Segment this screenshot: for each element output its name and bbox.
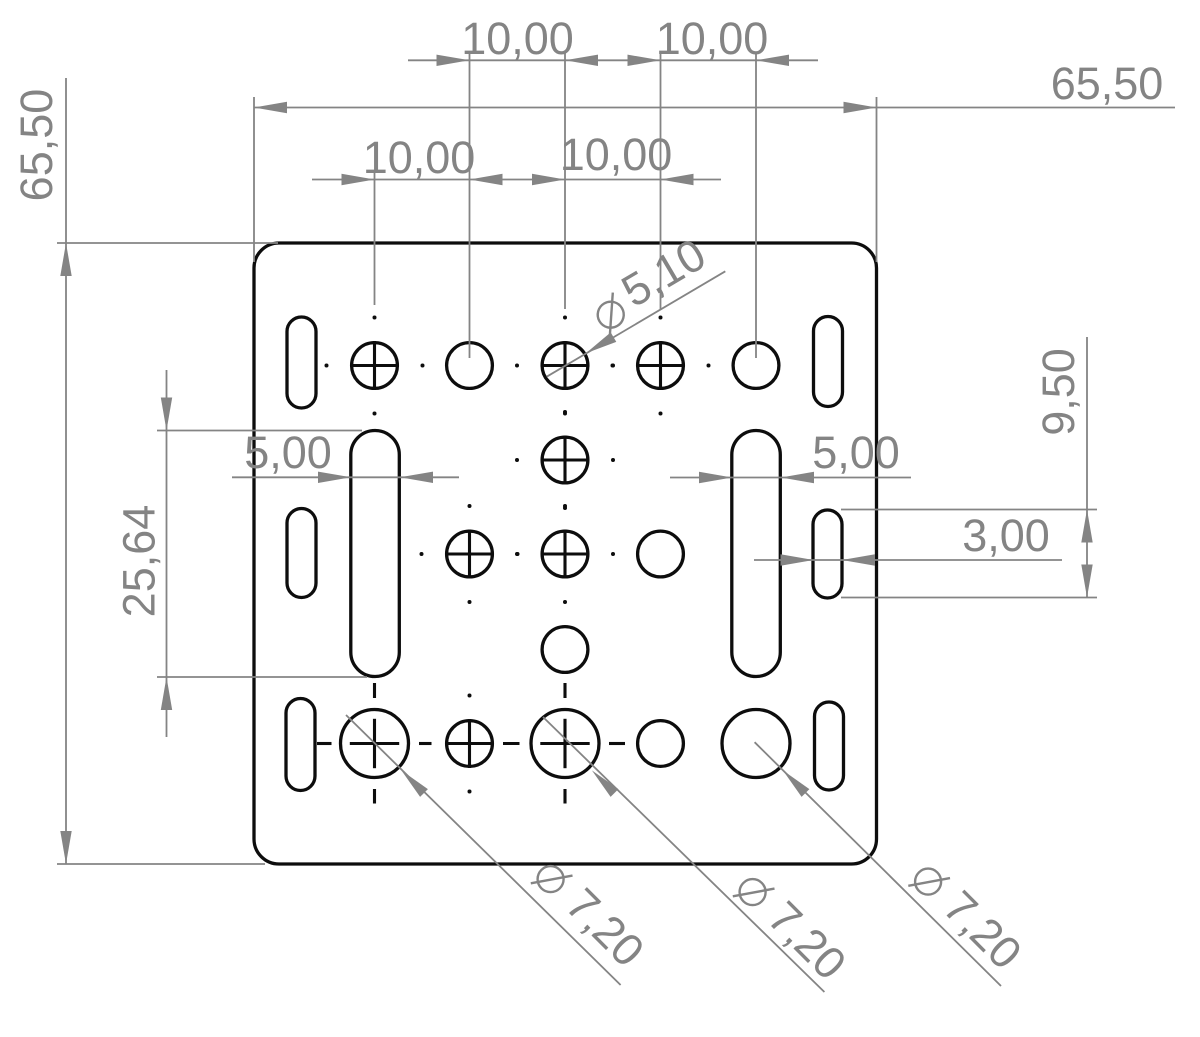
hole row1 col2 (plain): [447, 343, 493, 389]
plate outline: [254, 243, 877, 864]
svg-text:7,20: 7,20: [758, 891, 856, 989]
extension line col4: [660, 52, 662, 310]
svg-text:65,50: 65,50: [11, 89, 62, 202]
extension line col1: [374, 171, 376, 305]
hole row5 col2 (5.10 crossed): [445, 694, 494, 794]
leader dia 7,20 third (row5 col5): [755, 742, 1032, 986]
svg-text:10,00: 10,00: [560, 129, 673, 180]
hole row1 col5 (plain): [733, 343, 779, 389]
dim 10,00 top first (cols 2-3): [408, 13, 598, 66]
dim 65,50 horizontal: [254, 58, 1175, 113]
svg-text:10,00: 10,00: [461, 13, 574, 64]
dim 10,00 mid second (cols 3-4): [470, 129, 722, 185]
svg-text:10,00: 10,00: [656, 13, 769, 64]
svg-text:7,20: 7,20: [556, 878, 654, 976]
extension line col3: [564, 52, 566, 309]
dim 65,50 vertical: [11, 78, 72, 864]
hole row5 col3 (7.20 crossed): [531, 710, 599, 778]
centerline row5 horizontal dashes: [317, 742, 625, 745]
hole row3 col2 (5.10 crossed): [420, 504, 520, 604]
extension line plate left top corner: [253, 97, 255, 262]
hole row1 col4 (5.10 crossed): [611, 316, 711, 416]
dim 9,50: [841, 337, 1097, 598]
svg-text:7,20: 7,20: [934, 881, 1032, 979]
svg-text:5,00: 5,00: [244, 427, 332, 478]
hole row2 col3 (5.10 crossed): [515, 410, 615, 510]
slot bottom-left (3x9.5): [286, 699, 315, 791]
extension line plate bottom (left): [57, 863, 265, 865]
dim 3,00: [754, 510, 1062, 566]
svg-text:3,00: 3,00: [962, 510, 1050, 561]
centerline row5 vertical dashes col1: [373, 683, 376, 804]
slot right vertical (5x25.64): [732, 431, 781, 677]
svg-text:5,00: 5,00: [812, 427, 900, 478]
slot top-left (3x9.5): [287, 317, 316, 408]
extension line plate top (left): [57, 242, 278, 244]
hole row5 col4 (plain): [638, 721, 684, 767]
svg-text:65,50: 65,50: [1051, 58, 1164, 109]
slot top-right (3x9.5): [814, 317, 843, 407]
dim 25,64: [114, 370, 368, 737]
hole row1 col3 (5.10 crossed): [515, 316, 615, 416]
hole row3 col3 (5.10 crossed): [515, 504, 615, 604]
extension line col5: [755, 52, 757, 358]
svg-text:25,64: 25,64: [114, 505, 165, 618]
slot left vertical (5x25.64): [351, 431, 400, 677]
slot mid-right (3x9.5): [813, 510, 842, 598]
leader dia 7,20 first (row5 col1): [346, 715, 654, 985]
hole row3 col4 (plain): [638, 531, 684, 577]
dim 10,00 mid first (cols 1-2): [312, 132, 503, 185]
svg-text:10,00: 10,00: [363, 132, 476, 183]
svg-text:9,50: 9,50: [1033, 348, 1084, 436]
centerline row5 vertical dashes col3: [563, 683, 566, 804]
leader dia 7,20 second (row5 col3): [543, 717, 856, 992]
dim 5,00 left: [232, 427, 459, 483]
leader dia 5,10: [547, 228, 726, 376]
dim 10,00 top second (cols 4-5): [565, 13, 818, 66]
hole row1 col1 (5.10 crossed): [325, 316, 425, 416]
hole row5 col5 (7.20 plain): [722, 710, 790, 778]
slot mid-left (3x9.5): [287, 509, 316, 598]
dim 5,00 right: [670, 427, 911, 483]
hole row4 col3 (plain): [542, 627, 588, 673]
hole row5 col1 (7.20 crossed): [341, 710, 409, 778]
extension line col2: [469, 52, 471, 358]
extension line plate right top corner: [876, 97, 878, 262]
slot bottom-right (3x9.5): [815, 702, 844, 790]
